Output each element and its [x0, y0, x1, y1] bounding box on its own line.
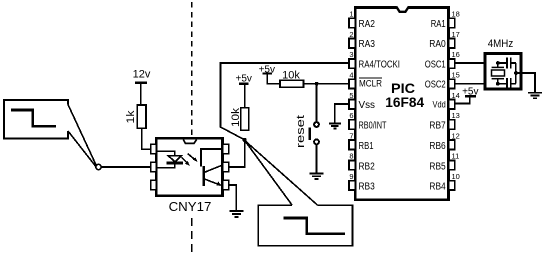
- +5v bar (Vdd): [465, 95, 476, 97]
- wire Vss to ground: [335, 104, 349, 123]
- node B junction dot: [315, 82, 319, 86]
- ground (crystal): [528, 92, 542, 94]
- svg-text:10k: 10k: [230, 107, 242, 127]
- capacitor C1 wire: [498, 62, 507, 64]
- pin 16: [449, 59, 455, 68]
- opto pin 2: [151, 162, 157, 171]
- pin 2: [349, 39, 355, 48]
- left callout tail line upper: [68, 105, 96, 166]
- capacitor C2 out wire: [511, 83, 516, 85]
- wire 10k to MCLR: [304, 83, 349, 85]
- pin 6: [349, 120, 355, 129]
- dashed divider line (lower segment): [191, 218, 193, 252]
- svg-text:OSC2: OSC2: [425, 80, 446, 91]
- svg-text:RB4: RB4: [429, 182, 446, 193]
- node A junction dot: [243, 138, 247, 142]
- svg-text:+5v: +5v: [462, 86, 478, 97]
- capacitor C2 plates: [506, 78, 508, 89]
- capacitor C2 wire: [498, 83, 507, 85]
- svg-text:4: 4: [349, 71, 353, 80]
- opto pin 4: [223, 180, 229, 189]
- opto notch: [183, 140, 196, 144]
- svg-text:1: 1: [349, 10, 353, 19]
- pin 17: [449, 39, 455, 48]
- wire reset switch to ground: [316, 144, 318, 173]
- svg-text:RB7: RB7: [429, 121, 446, 132]
- svg-text:16F84: 16F84: [385, 94, 424, 110]
- pin 4: [349, 79, 355, 88]
- wire node A to RA4/TOCKI: [221, 63, 349, 140]
- svg-text:MCLR: MCLR: [359, 79, 382, 90]
- pin 8: [349, 160, 355, 169]
- svg-text:RA0: RA0: [429, 39, 446, 50]
- +5v bar (collector pullup): [239, 83, 249, 85]
- crystal X1 bottom lead: [497, 78, 499, 83]
- +5v bar (MCLR pullup): [263, 72, 273, 74]
- ground (opto emitter): [229, 210, 243, 212]
- wire OSC1 to crystal box: [455, 62, 485, 64]
- opto pin 5: [223, 162, 229, 171]
- wire Vdd to +5v: [455, 97, 470, 104]
- crystal X1 body: [492, 70, 505, 76]
- light arrow 1: [181, 157, 188, 164]
- opto pin 6: [223, 144, 229, 153]
- pin 13: [449, 120, 455, 129]
- phototransistor collector: [205, 165, 223, 172]
- ground (reset): [310, 173, 324, 175]
- svg-text:7: 7: [349, 131, 353, 140]
- svg-text:Vss: Vss: [359, 100, 376, 111]
- pin 9: [349, 181, 355, 190]
- svg-text:RB1: RB1: [359, 141, 374, 152]
- svg-text:2: 2: [349, 30, 353, 39]
- pin 7: [349, 140, 355, 149]
- wire input to opto pin 2: [101, 166, 150, 168]
- svg-text:11: 11: [452, 152, 460, 161]
- LED cathode lead: [156, 164, 175, 167]
- capacitor C1 out wire: [511, 62, 516, 64]
- pin 14: [449, 100, 455, 109]
- opto pin 1: [151, 144, 157, 153]
- crystal X1 top lead: [497, 63, 499, 68]
- wire node E to ground: [516, 73, 535, 92]
- left waveform (falling edge): [11, 110, 56, 126]
- phototransistor emitter: [205, 179, 221, 185]
- LED anode lead: [156, 151, 175, 155]
- svg-text:15: 15: [452, 71, 460, 80]
- svg-text:4MHz: 4MHz: [488, 38, 514, 50]
- svg-text:13: 13: [452, 111, 460, 120]
- resistor 1k: [137, 105, 146, 128]
- reset switch terminal 2: [314, 140, 319, 145]
- svg-text:18: 18: [452, 10, 460, 19]
- wire opto pin4 to ground: [229, 185, 237, 211]
- svg-text:RA4/TOCKI: RA4/TOCKI: [359, 60, 401, 71]
- resistor 10k (horizontal): [280, 80, 304, 87]
- pin 11: [449, 160, 455, 169]
- ground (Vss): [329, 123, 341, 125]
- left waveform callout box: [4, 100, 68, 139]
- svg-text:9: 9: [349, 172, 353, 181]
- pin 3: [349, 59, 355, 68]
- crystal oscillator box: [485, 54, 521, 90]
- svg-text:17: 17: [452, 30, 460, 39]
- reset switch actuator bar: [309, 127, 311, 140]
- MCLR overline: [359, 77, 382, 79]
- svg-text:RB5: RB5: [429, 161, 446, 172]
- opto pin 3: [151, 180, 157, 189]
- pin 12: [449, 140, 455, 149]
- wire opto pin5 to node A: [229, 140, 245, 167]
- optocoupler U1 CNY17 body: [156, 138, 222, 196]
- reset switch terminal 1: [314, 122, 319, 127]
- node D junction dot: [496, 82, 500, 86]
- light arrow 2: [188, 154, 196, 161]
- svg-text:5: 5: [349, 91, 353, 100]
- pin 5: [349, 100, 355, 109]
- wire +5v to R 10k: [244, 85, 246, 108]
- dashed divider line (upper segment): [191, 2, 193, 138]
- pin 18: [449, 18, 455, 27]
- svg-text:+5v: +5v: [235, 73, 251, 84]
- wire caps common: [515, 63, 517, 84]
- svg-text:RB2: RB2: [359, 161, 376, 172]
- svg-text:12v: 12v: [133, 69, 151, 81]
- left callout tail line lower: [68, 131, 96, 167]
- node E junction dot: [514, 71, 518, 75]
- wire +5v to R 10k horizontal: [267, 75, 280, 84]
- LED cathode bar: [167, 162, 183, 165]
- phototransistor base lead: [201, 149, 223, 167]
- svg-text:RA3: RA3: [359, 39, 376, 50]
- bottom callout tail line left: [245, 141, 292, 205]
- svg-text:6: 6: [349, 111, 353, 120]
- resistor 10k (vertical): [241, 108, 249, 131]
- svg-text:RB0/INT: RB0/INT: [359, 121, 387, 132]
- svg-text:reset: reset: [295, 115, 307, 148]
- svg-text:RA2: RA2: [359, 19, 376, 30]
- wire OSC2 to crystal box: [455, 83, 485, 85]
- svg-text:1k: 1k: [125, 110, 137, 124]
- svg-text:12: 12: [452, 131, 460, 140]
- svg-text:3: 3: [349, 50, 353, 59]
- svg-text:10: 10: [452, 172, 460, 181]
- svg-text:16: 16: [452, 50, 460, 59]
- wire 12v to R 1k: [140, 84, 142, 105]
- PIC notch: [397, 6, 408, 10]
- PIC U2 16F84 body: [355, 8, 448, 200]
- wire node B to reset switch: [316, 84, 318, 122]
- bottom waveform (falling edge): [284, 218, 346, 234]
- crystal X1 bottom plate: [492, 78, 504, 80]
- svg-text:Vdd: Vdd: [433, 100, 446, 110]
- svg-text:RA1: RA1: [431, 19, 446, 30]
- svg-text:RB6: RB6: [429, 141, 446, 152]
- input terminal circle: [96, 164, 101, 169]
- wire 1k to opto pin 1: [142, 128, 151, 149]
- node C junction dot: [496, 61, 500, 65]
- crystal X1 top plate: [492, 66, 504, 68]
- svg-text:8: 8: [349, 152, 353, 161]
- bottom waveform callout box: [258, 205, 352, 246]
- svg-text:OSC1: OSC1: [425, 60, 446, 71]
- pin 1: [349, 18, 355, 27]
- svg-text:14: 14: [452, 91, 460, 100]
- phototransistor base bar: [202, 166, 204, 186]
- capacitor C1 plates: [506, 57, 508, 68]
- pin 15: [449, 79, 455, 88]
- bottom callout tail line right: [246, 142, 317, 205]
- 12v supply bar: [135, 82, 147, 84]
- pin 10: [449, 181, 455, 190]
- LED triangle: [168, 156, 181, 162]
- svg-text:CNY17: CNY17: [169, 199, 212, 214]
- svg-text:RB3: RB3: [359, 182, 376, 193]
